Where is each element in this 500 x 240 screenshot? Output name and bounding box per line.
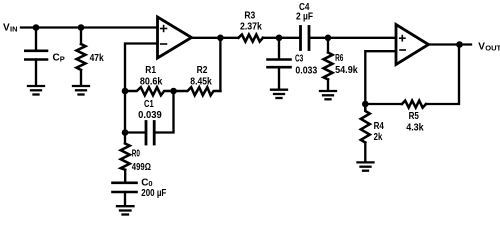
node C1 left junction xyxy=(122,129,129,136)
node 47k junction xyxy=(78,24,85,31)
svg-text:2k: 2k xyxy=(374,132,383,143)
resistor R3 xyxy=(238,35,263,42)
resistor R1 xyxy=(125,87,174,95)
svg-text:V: V xyxy=(3,23,10,34)
ground under 47k xyxy=(73,86,89,95)
svg-text:P: P xyxy=(60,54,65,63)
label V_IN xyxy=(3,23,18,34)
svg-text:200 µF: 200 µF xyxy=(141,188,166,199)
wire C0 bottom lead xyxy=(124,192,126,205)
wire R6 top lead xyxy=(327,38,329,53)
wire R5 left lead xyxy=(365,103,402,105)
wire R0 to C0 xyxy=(124,170,126,182)
ground under C0 xyxy=(117,206,134,214)
capacitor C3 xyxy=(268,60,291,68)
node C4/R6 junction xyxy=(325,35,332,42)
capacitor C4 xyxy=(301,27,310,50)
wire 47k bottom lead xyxy=(80,70,82,85)
wire C4 to opamp2 xyxy=(310,37,396,39)
resistor R2 xyxy=(174,87,221,95)
svg-text:R5: R5 xyxy=(409,111,420,122)
svg-text:R2: R2 xyxy=(197,65,208,76)
label V_OUT xyxy=(478,42,500,53)
node V_OUT junction xyxy=(456,41,463,48)
wire C1 left lead xyxy=(125,131,145,133)
svg-text:0: 0 xyxy=(148,179,152,188)
wire U2 output xyxy=(429,43,472,45)
op-amp U2 xyxy=(396,25,429,65)
svg-text:R0: R0 xyxy=(132,149,140,160)
resistor R0 xyxy=(121,144,130,170)
svg-text:499Ω: 499Ω xyxy=(132,162,151,173)
wire main input xyxy=(21,26,158,28)
svg-text:R3: R3 xyxy=(244,11,255,22)
svg-text:IN: IN xyxy=(10,24,18,33)
wire R6 bottom lead xyxy=(327,79,329,90)
wire 47k top lead xyxy=(80,28,82,45)
svg-text:0.039: 0.039 xyxy=(138,110,162,121)
resistor R4 xyxy=(361,104,370,143)
svg-text:C: C xyxy=(53,53,60,64)
svg-text:R6: R6 xyxy=(335,53,344,64)
wire C1 right lead up to R1/R2 node xyxy=(156,91,174,133)
svg-text:R1: R1 xyxy=(145,65,156,76)
resistor R5 xyxy=(402,101,426,108)
resistor R6 xyxy=(324,53,333,80)
svg-text:OUT: OUT xyxy=(485,43,500,52)
resistor 47k xyxy=(77,44,86,70)
ground under R6 xyxy=(320,91,336,99)
svg-text:V: V xyxy=(478,42,485,53)
wire R5 right lead and up xyxy=(426,45,459,105)
svg-text:4.3k: 4.3k xyxy=(406,123,424,134)
wire feedback down from output node xyxy=(219,38,221,91)
node R4/R5 junction xyxy=(362,101,369,108)
svg-text:2.37k: 2.37k xyxy=(240,22,262,33)
op-amp U1 xyxy=(158,17,192,58)
wire U1 inverting input xyxy=(125,44,158,92)
wire U2 inverting input xyxy=(365,51,396,104)
svg-text:54.9k: 54.9k xyxy=(335,65,358,76)
wire C3 top lead xyxy=(278,38,280,59)
node feedback left R1 xyxy=(122,88,129,95)
wire C_P top lead xyxy=(35,28,37,50)
svg-text:2 µF: 2 µF xyxy=(296,12,313,23)
svg-text:C3: C3 xyxy=(295,53,304,64)
ground under C3 xyxy=(271,90,287,98)
ground under R4 xyxy=(358,162,374,170)
node R3/C3/C4 junction xyxy=(276,35,283,42)
label C0 xyxy=(141,177,152,188)
capacitor C1 xyxy=(146,122,154,145)
wire feedback left vertical xyxy=(124,91,126,143)
wire C_P bottom lead xyxy=(35,60,37,86)
node R1/R2/C1 junction xyxy=(170,88,177,95)
svg-text:47k: 47k xyxy=(90,53,104,64)
capacitor C_P xyxy=(25,51,47,60)
node V_IN/C_P junction xyxy=(33,24,40,31)
ground under C_P xyxy=(28,86,44,95)
svg-text:8.45k: 8.45k xyxy=(190,77,212,88)
wire R3 to C3 node xyxy=(263,37,300,39)
svg-text:0.033: 0.033 xyxy=(295,66,317,77)
wire C3 bottom lead xyxy=(278,67,280,88)
svg-text:80.6k: 80.6k xyxy=(140,77,163,88)
svg-text:C1: C1 xyxy=(144,99,154,110)
capacitor C0 xyxy=(113,183,137,192)
label C_P xyxy=(53,53,65,64)
node U1 output junction xyxy=(217,35,224,42)
svg-text:R4: R4 xyxy=(374,121,385,132)
wire R4 bottom lead xyxy=(364,143,366,162)
wire U1 output xyxy=(192,37,239,39)
